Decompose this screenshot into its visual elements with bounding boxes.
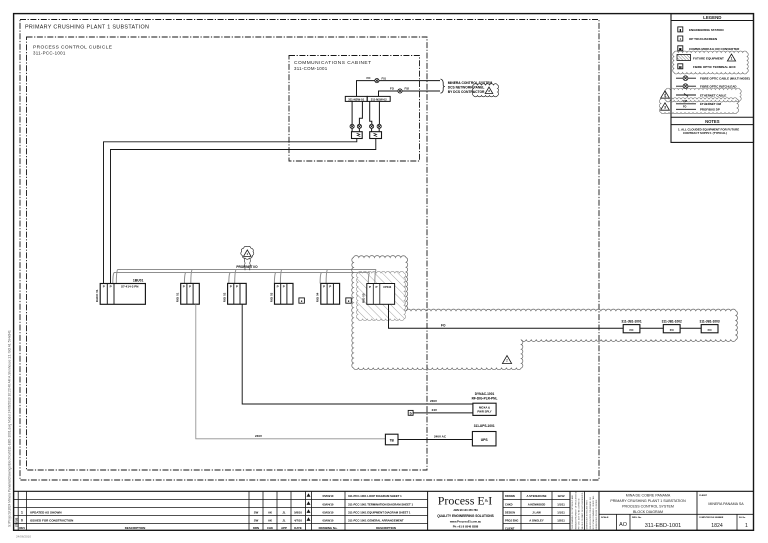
svg-text:PWR SPLY: PWR SPLY	[477, 409, 491, 413]
size cell	[629, 514, 631, 530]
svg-text:JL: JL	[282, 519, 286, 523]
wire bus drop	[113, 273, 114, 284]
svg-text:P: P	[103, 285, 105, 289]
svg-text:www.ProcessEI.com.au: www.ProcessEI.com.au	[449, 520, 482, 524]
svg-text:1BU01: 1BU01	[133, 279, 144, 283]
svg-text:DRG. No.: DRG. No.	[632, 517, 642, 519]
svg-text:THIS DRAWING IS COPYRIGHT AND: THIS DRAWING IS COPYRIGHT AND	[571, 495, 574, 530]
svg-text:311-NSW-02: 311-NSW-02	[371, 97, 387, 101]
svg-text:TB: TB	[390, 439, 395, 443]
svg-text:P: P	[323, 285, 325, 289]
svg-text:PROFINET I/O: PROFINET I/O	[236, 265, 258, 269]
legend item OP panel	[678, 36, 683, 41]
svg-text:RIO 05: RIO 05	[362, 293, 366, 303]
svg-text:CHK: CHK	[267, 526, 273, 530]
svg-text:DCS NETWORK PANEL: DCS NETWORK PANEL	[448, 86, 485, 90]
media converter MC2	[370, 132, 382, 139]
plc rack U4 remote IO 3	[275, 283, 294, 304]
plc rack U6 future remote IO	[367, 284, 395, 305]
svg-text:DRAWING No.: DRAWING No.	[319, 526, 338, 530]
wire SW2 port1 jog	[370, 101, 372, 124]
svg-text:05/06/10: 05/06/10	[323, 518, 334, 522]
svg-text:Process E&I: Process E&I	[438, 494, 493, 508]
svg-text:RIO 01: RIO 01	[176, 292, 180, 302]
svg-text:FUTURE EQUIPMENT: FUTURE EQUIPMENT	[693, 57, 724, 61]
svg-text:240V: 240V	[255, 434, 262, 438]
svg-text:STATUS: STATUS	[15, 517, 18, 527]
fibre connector uplink1	[375, 79, 379, 83]
junction box JB3 311-JB-1003	[701, 325, 718, 333]
svg-text:ETHERNET OM: ETHERNET OM	[700, 102, 722, 106]
legend cloud ethernet	[665, 88, 741, 102]
wire JB1-JB2	[640, 327, 663, 329]
wire SW1 uplink	[357, 81, 441, 97]
svg-text:P: P	[183, 285, 185, 289]
wire FO to field JBs	[389, 304, 624, 328]
svg-text:311-COM-1001: 311-COM-1001	[294, 66, 328, 71]
wire 230V rack3 to dynamic	[242, 304, 473, 404]
svg-text:UPS: UPS	[481, 438, 489, 442]
svg-text:APP: APP	[281, 526, 287, 530]
svg-text:1: 1	[731, 56, 733, 60]
svg-text:05/04/10: 05/04/10	[323, 502, 334, 506]
svg-text:05/05/10: 05/05/10	[323, 510, 334, 514]
svg-text:▣: ▣	[679, 47, 682, 51]
svg-text:311-EBD-1001: 311-EBD-1001	[645, 523, 682, 529]
svg-text:PROCESS CONTROL SYSTEM: PROCESS CONTROL SYSTEM	[622, 505, 674, 509]
svg-text:QUALITY ENGINEERING SOLUTIONS: QUALITY ENGINEERING SOLUTIONS	[437, 514, 494, 518]
wire bus drop	[184, 273, 185, 284]
svg-text:CLIENT: CLIENT	[699, 495, 708, 497]
svg-text:ABN 98 123 456 789: ABN 98 123 456 789	[453, 508, 478, 512]
svg-text:CP343: CP343	[383, 285, 391, 289]
title block	[14, 490, 754, 492]
svg-text:1/1/11: 1/1/11	[557, 510, 565, 514]
svg-text:DATE: DATE	[294, 526, 302, 530]
svg-text:CLIENT: CLIENT	[505, 526, 515, 530]
svg-text:A STENHOUSE: A STENHOUSE	[526, 494, 546, 498]
plc rack U2 remote IO 1	[181, 283, 200, 304]
svg-text:J LAW: J LAW	[532, 510, 541, 514]
svg-text:UPDATED AS SHOWN: UPDATED AS SHOWN	[30, 511, 62, 515]
legend symbol ethernet	[676, 94, 696, 96]
future equipment hatch	[356, 271, 405, 320]
svg-text:COMMS MODULE OR CONVERTER: COMMS MODULE OR CONVERTER	[689, 47, 740, 51]
svg-text:SW: SW	[254, 519, 259, 523]
svg-text:FIBRE OPTIC CABLE (MULTI MODE): FIBRE OPTIC CABLE (MULTI MODE)	[700, 77, 750, 81]
svg-text:ENGINEERING STATION: ENGINEERING STATION	[689, 28, 724, 32]
svg-text:NOT SCALE DRAWING. VERIFY ALL: NOT SCALE DRAWING. VERIFY ALL	[592, 495, 595, 530]
svg-text:311-JB1-1001: 311-JB1-1001	[621, 319, 641, 323]
wire 240V rack2 to TB	[196, 304, 386, 439]
svg-text:1824: 1824	[711, 523, 723, 529]
svg-text:P: P	[236, 285, 238, 289]
wire fibre B MC2 to rack1	[111, 139, 376, 284]
svg-text:24/06/2010: 24/06/2010	[16, 535, 31, 539]
svg-text:2: 2	[664, 94, 666, 98]
legend symbol FO patch	[676, 85, 696, 87]
svg-text:3: 3	[664, 106, 666, 110]
balloon network symbol	[241, 246, 254, 259]
svg-text:12/12: 12/12	[558, 494, 565, 498]
svg-text:DRAWN: DRAWN	[505, 494, 515, 498]
legend symbol OM line	[676, 103, 696, 105]
svg-text:P: P	[189, 285, 191, 289]
svg-text:311-PCC-1001 GENERAL ARRANGE: 311-PCC-1001 GENERAL ARRANGEMENT	[348, 518, 404, 522]
svg-text:311-JB1-1003: 311-JB1-1003	[699, 319, 719, 323]
wire bus drop	[229, 273, 230, 284]
ethernet switch SW2 311-NSW-002	[367, 96, 390, 101]
svg-text:BY DCS CONTRACTOR: BY DCS CONTRACTOR	[448, 90, 485, 94]
svg-text:05/03/10: 05/03/10	[323, 494, 334, 498]
svg-text:DIMENSIONS PRIOR TO WORK.: DIMENSIONS PRIOR TO WORK.	[596, 499, 598, 530]
fibre connector c1	[350, 124, 354, 128]
terminator TR1	[299, 298, 305, 303]
svg-text:ISSUED FOR CONSTRUCTION: ISSUED FOR CONSTRUCTION	[30, 519, 73, 523]
process control cubicle boundary 311-PCC-1001	[27, 37, 428, 470]
svg-text:AK: AK	[268, 519, 272, 523]
triangle note 3	[485, 87, 493, 94]
wire c1 to MC1	[351, 129, 353, 132]
terminator TR2	[346, 298, 352, 303]
svg-text:DESCRIPTION: DESCRIPTION	[125, 526, 146, 530]
rev marker col	[307, 493, 311, 497]
svg-text:A KENWOOD: A KENWOOD	[528, 502, 546, 506]
legend item operator station	[678, 27, 683, 32]
legend item terminal box	[678, 64, 683, 69]
svg-text:5/8/10: 5/8/10	[294, 511, 302, 515]
ethernet switch SW1 311-NSW-001	[345, 96, 367, 101]
svg-text:311-PCC-1001 TERMINATION DIA: 311-PCC-1001 TERMINATION DIAGRAM SHEET 1	[348, 502, 414, 506]
svg-text:0: 0	[21, 519, 23, 523]
svg-text:OM: OM	[683, 100, 687, 103]
svg-text:FO: FO	[683, 106, 686, 109]
svg-text:DESCRIPTION: DESCRIPTION	[376, 526, 396, 530]
wire c2 to MC1	[358, 129, 360, 132]
svg-text:S7-414-3 PN: S7-414-3 PN	[121, 285, 138, 289]
wire SW2 uplink	[379, 91, 441, 96]
svg-text:OP TOUCHSCREEN: OP TOUCHSCREEN	[689, 37, 717, 41]
wire SW2 port2 down	[378, 101, 380, 124]
svg-text:PROFIBUS DP: PROFIBUS DP	[700, 108, 720, 112]
substation boundary 311 area	[20, 20, 599, 481]
svg-text:RIO 02: RIO 02	[222, 292, 226, 302]
fibre connector c3	[370, 124, 374, 128]
svg-text:MINA DE COBRE PANAMA: MINA DE COBRE PANAMA	[626, 494, 671, 498]
svg-text:P: P	[110, 285, 112, 289]
svg-text:1/1/11: 1/1/11	[557, 502, 565, 506]
legend symbol FO splice	[676, 77, 696, 79]
svg-text:▤: ▤	[679, 65, 682, 69]
profinet bus lower	[114, 272, 370, 274]
file number cell	[736, 514, 738, 530]
svg-text:230V: 230V	[430, 399, 437, 403]
svg-text:NOTES: NOTES	[705, 119, 720, 124]
svg-text:DRN: DRN	[253, 526, 259, 530]
legend triangle note	[727, 54, 735, 61]
svg-text:RIO 04: RIO 04	[316, 292, 320, 302]
svg-text:A ONGLEY: A ONGLEY	[529, 518, 544, 522]
svg-text:COMPUTER FILE NUMBER: COMPUTER FILE NUMBER	[699, 517, 724, 519]
svg-text:RIO 03: RIO 03	[269, 292, 273, 302]
svg-text:SW: SW	[254, 511, 259, 515]
svg-text:REV: REV	[19, 526, 25, 530]
svg-text:1/2/11: 1/2/11	[557, 518, 565, 522]
cloud around DCS note	[472, 84, 498, 97]
ProcessE&I logo block	[502, 491, 504, 530]
legend cloud future items	[673, 51, 749, 74]
svg-text:F01: F01	[382, 76, 387, 80]
disclaimer columns	[584, 491, 586, 530]
svg-text:CHKD: CHKD	[505, 502, 513, 506]
svg-text:UNLESS NOTED OTHERWISE. DO: UNLESS NOTED OTHERWISE. DO	[590, 497, 592, 530]
svg-text:CONTRACT SUPPLY. (TYPICAL): CONTRACT SUPPLY. (TYPICAL)	[683, 131, 727, 135]
svg-text:RACK 01: RACK 01	[95, 289, 99, 302]
legend item future equipment	[677, 55, 691, 61]
svg-text:240V AC: 240V AC	[434, 435, 447, 439]
svg-text:PRIMARY CRUSHING PLANT 1 SUBST: PRIMARY CRUSHING PLANT 1 SUBSTATION	[25, 25, 149, 31]
dynamic panel DYNAC-1001	[473, 403, 496, 415]
svg-text:24V: 24V	[432, 408, 437, 412]
svg-text:AK: AK	[268, 511, 272, 515]
triangle note 2	[502, 356, 511, 364]
svg-text:DIMENSIONS IN MILLIMETRES: DIMENSIONS IN MILLIMETRES	[587, 500, 589, 530]
svg-text:P: P	[277, 285, 279, 289]
wire c3 to MC2	[371, 129, 373, 132]
scale cell	[616, 514, 618, 530]
svg-text:P: P	[230, 285, 232, 289]
approvals table	[503, 498, 570, 500]
svg-text:SH. No.: SH. No.	[739, 517, 746, 519]
svg-text:b: b	[410, 411, 412, 415]
svg-text:WHOLE OR PART. RIGHTS RESERVED: WHOLE OR PART. RIGHTS RESERVED	[581, 492, 584, 529]
svg-text:1: 1	[745, 523, 748, 529]
triangle note 1	[244, 250, 252, 257]
svg-text:S:\Projects\1824 Minera Panama: S:\Projects\1824 Minera Panama\Drawings\…	[8, 330, 12, 527]
svg-text:F02: F02	[405, 87, 410, 91]
svg-text:311-UPS-1001: 311-UPS-1001	[474, 424, 495, 428]
svg-text:P: P	[329, 285, 331, 289]
revision cloud future works	[352, 256, 738, 370]
wire bus drop	[368, 273, 369, 284]
svg-text:2: 2	[506, 359, 508, 363]
legend item comms module	[678, 46, 683, 51]
svg-text:311-PCC-1001 EQUIPMENT DIAGR: 311-PCC-1001 EQUIPMENT DIAGRAM SHEET 1	[348, 510, 411, 514]
svg-text:AO: AO	[619, 522, 627, 528]
wire bus drop	[320, 273, 321, 284]
plc rack U1 main controller	[100, 284, 145, 305]
junction box JB1 311-JB-1001	[623, 325, 640, 333]
terminal box TB	[385, 434, 398, 445]
reference drawings table	[312, 498, 428, 500]
communications cabinet boundary 311-COM-1001	[289, 56, 420, 162]
legend triangle 3	[661, 103, 670, 110]
wire c4 to MC2	[378, 129, 380, 132]
svg-text:LEGEND: LEGEND	[703, 15, 721, 20]
wire bus drop	[274, 273, 275, 284]
legend symbol FO line	[676, 108, 696, 110]
svg-text:311-NSW-01: 311-NSW-01	[348, 97, 364, 101]
svg-text:PROJ ENG: PROJ ENG	[505, 518, 518, 522]
svg-text:SCALE: SCALE	[601, 516, 609, 519]
plc rack U3 remote IO 2	[228, 283, 247, 304]
svg-text:311-JB1-1002: 311-JB1-1002	[662, 319, 682, 323]
svg-text:P: P	[375, 285, 377, 289]
legend panel	[671, 14, 754, 143]
svg-text:MINERA PANAMA SA: MINERA PANAMA SA	[708, 502, 744, 506]
svg-text:DESIGN: DESIGN	[505, 510, 515, 514]
svg-text:REMAINS PROPERTY OF PROCESS E&: REMAINS PROPERTY OF PROCESS E&I	[574, 491, 577, 529]
svg-text:DYNAC-1001: DYNAC-1001	[475, 392, 495, 396]
svg-text:JL: JL	[282, 511, 286, 515]
svg-text:FIBRE OPTIC TERMINAL BOX: FIBRE OPTIC TERMINAL BOX	[693, 65, 736, 69]
svg-text:BLOCK DIAGRAM: BLOCK DIAGRAM	[633, 510, 663, 514]
plc rack U5 remote IO 4	[321, 283, 340, 304]
fibre connector uplink2	[398, 89, 402, 93]
svg-text:PRIMARY CRUSHING PLANT 1 SUBST: PRIMARY CRUSHING PLANT 1 SUBSTATION	[610, 499, 686, 503]
brace to DCS note	[441, 79, 445, 93]
legend cloud profibus	[659, 98, 738, 114]
wire fibre A MC1 to rack1	[104, 139, 357, 284]
junction box JB2 311-JB-1002	[663, 325, 680, 333]
svg-text:RF-DIG-PLR-PNL: RF-DIG-PLR-PNL	[472, 397, 498, 401]
wire SW1 port1 down	[351, 101, 353, 124]
media converter MC1	[352, 132, 363, 139]
notes panel	[671, 116, 754, 118]
svg-text:P: P	[369, 285, 371, 289]
svg-text:PTY LTD. NOT TO BE COPIED IN: PTY LTD. NOT TO BE COPIED IN	[579, 498, 581, 529]
wire JB2-JB3	[680, 327, 701, 329]
svg-text:P: P	[283, 285, 285, 289]
fibre connector c2	[357, 124, 361, 128]
svg-text:311-PCC-1001: 311-PCC-1001	[33, 51, 66, 56]
svg-text:ETHERNET CABLE: ETHERNET CABLE	[700, 93, 726, 97]
wire TB to UPS	[398, 439, 472, 441]
profinet bus upper	[118, 269, 377, 271]
fibre connector c4	[377, 124, 381, 128]
wire 24V to dynamic	[413, 412, 473, 414]
svg-text:Ph +61 8 9346 8388: Ph +61 8 9346 8388	[453, 525, 479, 529]
wire SW1 port2 jog	[359, 101, 362, 124]
legend triangle 2	[661, 91, 670, 98]
svg-text:FO: FO	[441, 323, 446, 327]
svg-text:311-PCC-1001 LOOP DIAGRAM S: 311-PCC-1001 LOOP DIAGRAM SHEET 1	[348, 494, 402, 498]
isolator b1	[408, 410, 413, 415]
UPS 311-UPS-1001	[472, 432, 496, 446]
svg-text:1: 1	[21, 511, 23, 515]
svg-text:4/7/10: 4/7/10	[294, 519, 302, 523]
